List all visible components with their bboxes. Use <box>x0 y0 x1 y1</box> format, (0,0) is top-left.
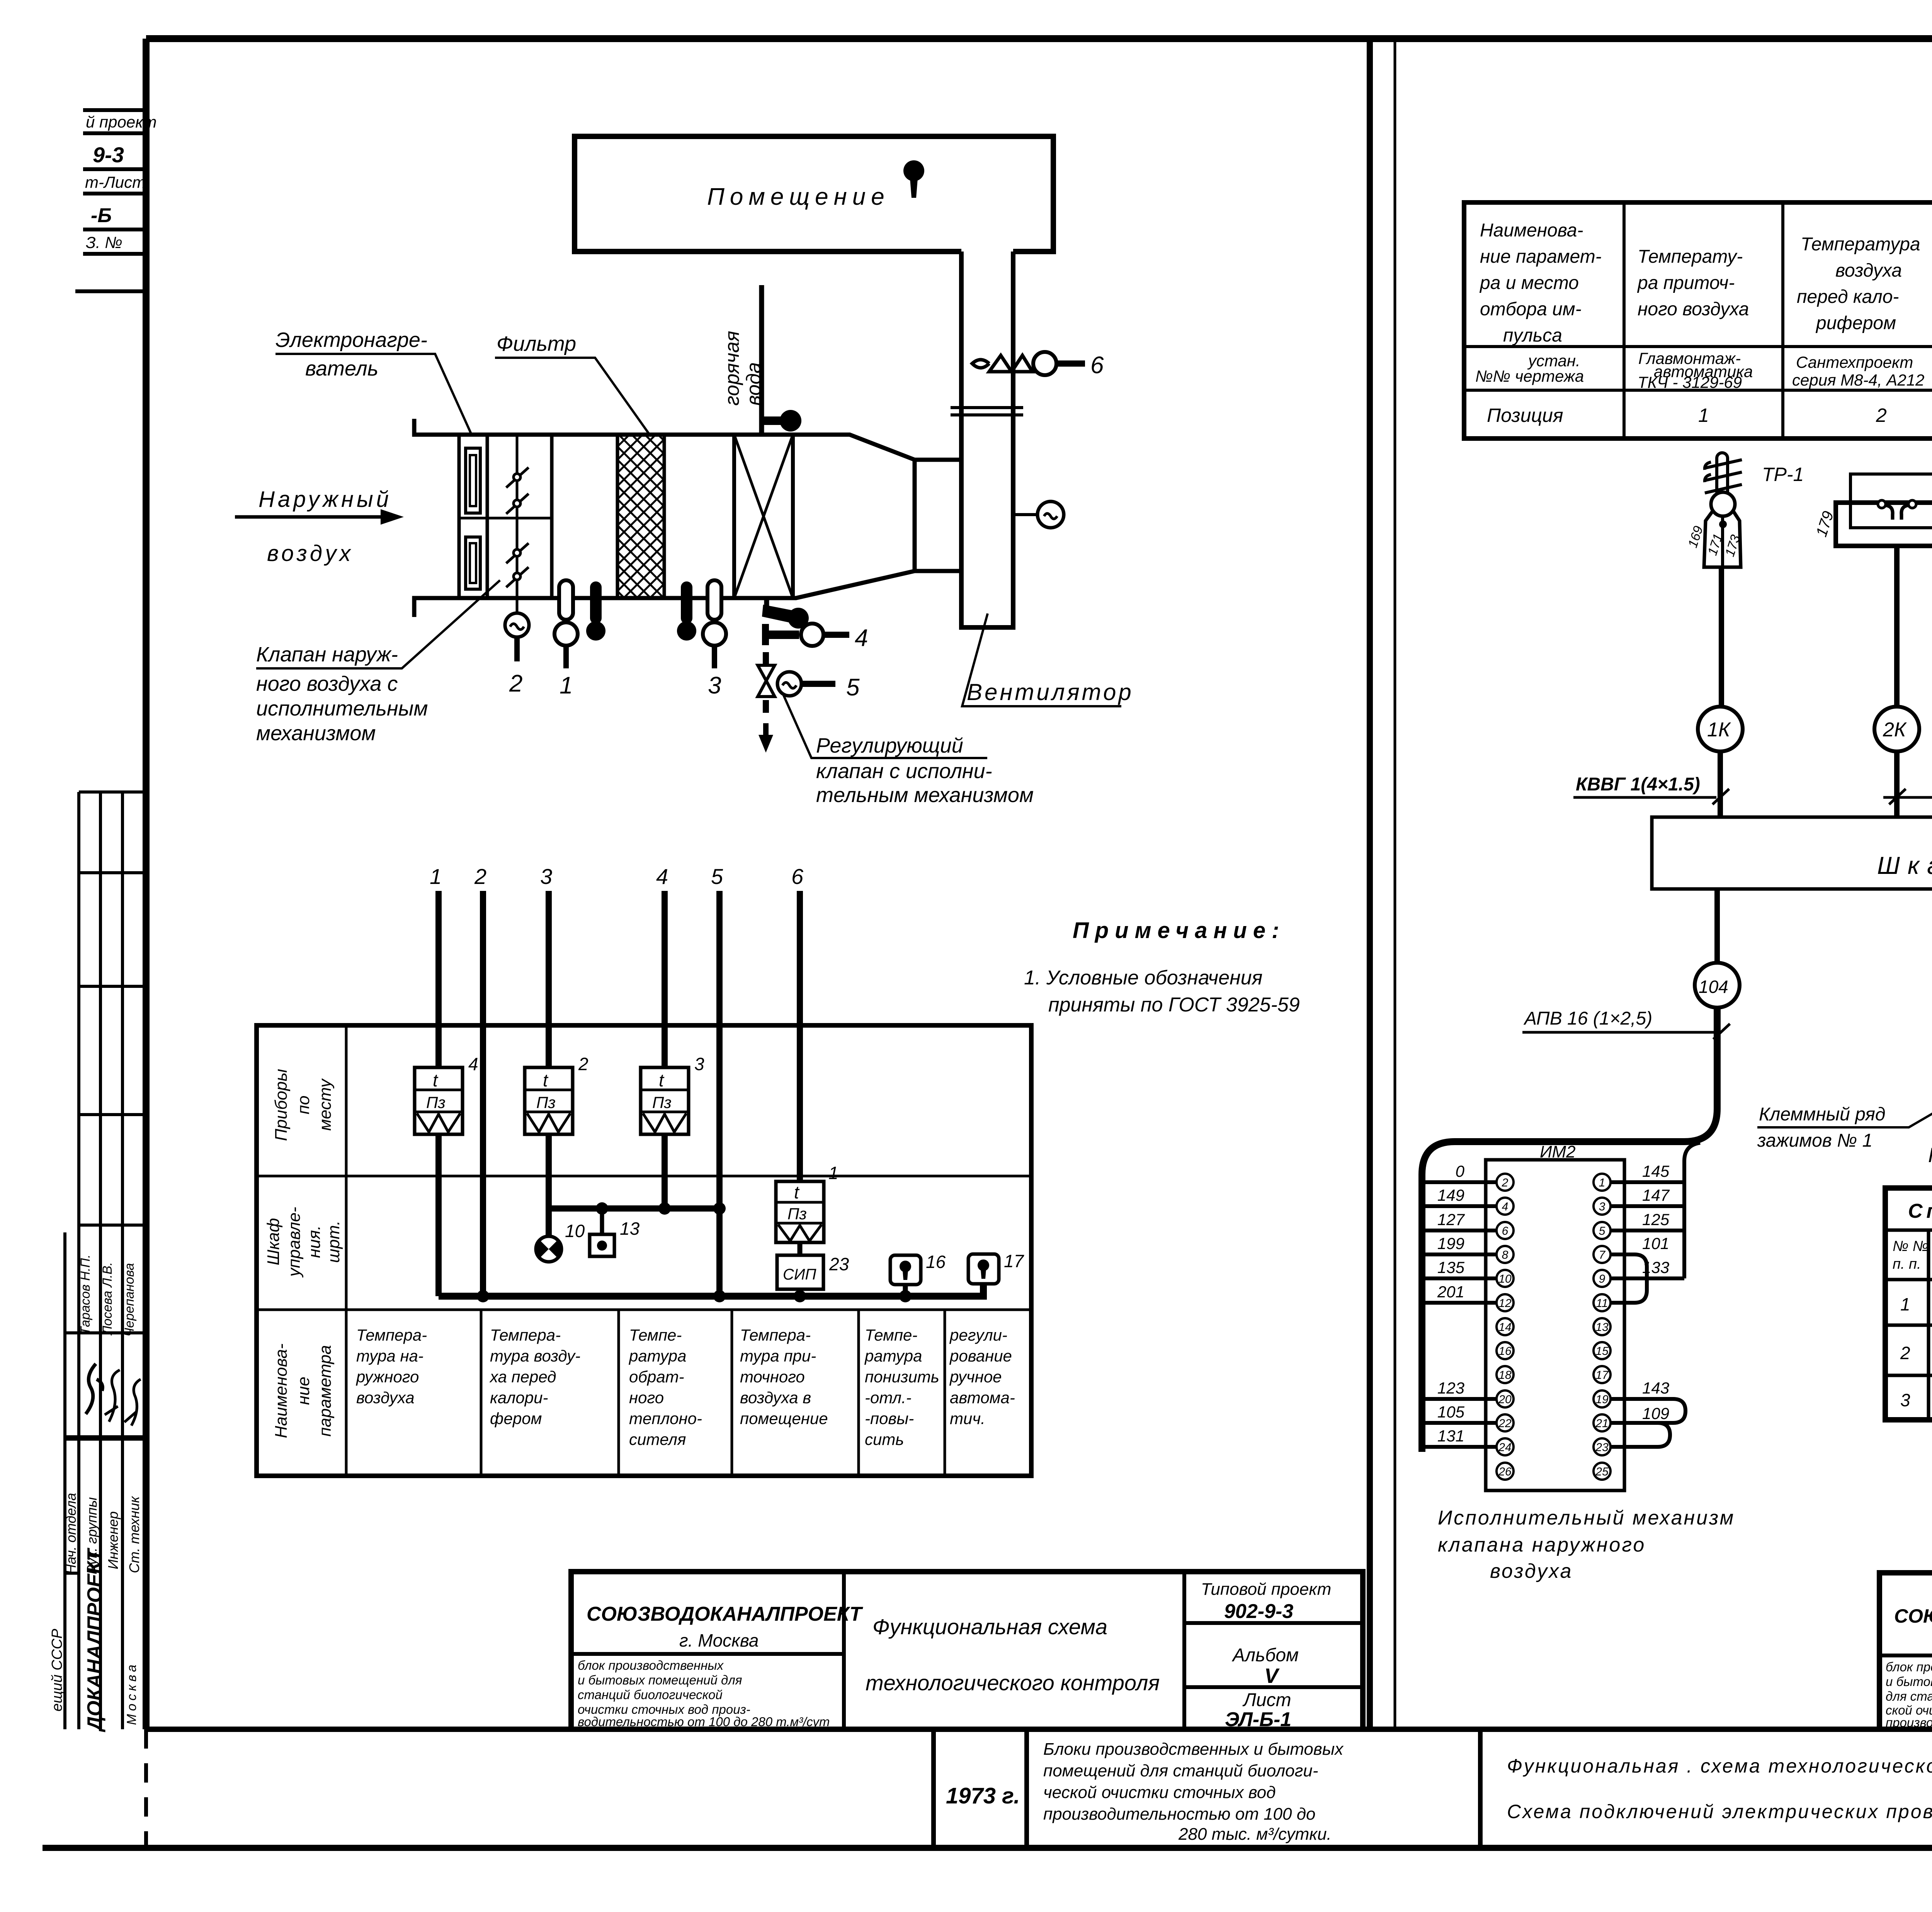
impulse line 6 <box>791 864 804 1184</box>
svg-text:14: 14 <box>1498 1321 1511 1334</box>
instrument block on line 1 (pos 4) <box>415 1054 478 1134</box>
svg-text:СОЮЗВОДОКАНАЛПРОЕКТ: СОЮЗВОДОКАНАЛПРОЕКТ <box>1894 1605 1932 1627</box>
svg-text:8: 8 <box>1502 1249 1509 1261</box>
svg-text:№ №: № № <box>1893 1238 1929 1254</box>
svg-text:по: по <box>294 1096 313 1115</box>
svg-text:клапана наружного: клапана наружного <box>1438 1534 1646 1556</box>
instrument block on line 6 (pos 1) <box>776 1163 838 1242</box>
svg-text:-повы-: -повы- <box>865 1409 914 1428</box>
impulse line 3 <box>540 864 552 1236</box>
svg-text:производит. от.100 до 280 т.м³: производит. от.100 до 280 т.м³/сут <box>1886 1715 1932 1730</box>
thermometer black B <box>677 581 696 641</box>
svg-text:5: 5 <box>846 674 860 701</box>
svg-text:6: 6 <box>791 864 804 889</box>
svg-text:Темпе-: Темпе- <box>629 1326 682 1344</box>
svg-text:-отл.-: -отл.- <box>865 1389 912 1407</box>
svg-text:Спецификация основных мон: Спецификация основных монтажных материал… <box>1908 1200 1932 1222</box>
room temperature sensor (black) <box>903 160 924 198</box>
svg-text:ние парамет-: ние парамет- <box>1480 246 1602 267</box>
svg-text:ха перед: ха перед <box>489 1368 556 1386</box>
svg-text:Функциональная . схема техно: Функциональная . схема технологического … <box>1507 1755 1932 1777</box>
svg-text:123: 123 <box>1437 1379 1464 1397</box>
caption: Исполнительный механизм клапана наружного воздуха <box>1438 1507 1735 1582</box>
svg-text:t: t <box>659 1070 665 1090</box>
label APV16 <box>1522 1008 1730 1039</box>
regulating valve element 5 <box>758 652 860 753</box>
svg-text:3: 3 <box>1599 1200 1605 1213</box>
row header Наименование параметра <box>272 1343 335 1438</box>
svg-text:Исполнительный механизм: Исполнительный механизм <box>1438 1507 1735 1529</box>
svg-text:4: 4 <box>1502 1200 1509 1213</box>
wire to 104 <box>1695 889 1740 1008</box>
svg-text:Ст. техник: Ст. техник <box>126 1496 142 1573</box>
svg-text:17: 17 <box>1595 1369 1609 1382</box>
svg-text:фером: фером <box>490 1409 542 1428</box>
label Регулирующий клапан <box>784 695 1034 807</box>
svg-text:t: t <box>433 1070 439 1090</box>
svg-text:109: 109 <box>1642 1404 1669 1423</box>
svg-text:управле-: управле- <box>285 1207 304 1278</box>
svg-text:Темпера-: Темпера- <box>490 1326 561 1344</box>
svg-text:точного: точного <box>740 1368 805 1386</box>
svg-text:ружного: ружного <box>355 1368 419 1386</box>
svg-text:Типовой проект: Типовой проект <box>1201 1580 1331 1599</box>
svg-text:0: 0 <box>1456 1162 1465 1180</box>
label Вентилятор <box>962 614 1134 706</box>
svg-text:Регулирующий: Регулирующий <box>816 734 963 757</box>
cable labels <box>1573 773 1932 804</box>
element 4 pressure tap <box>765 624 868 651</box>
section divider <box>550 435 554 598</box>
right title block <box>1879 1573 1932 1730</box>
svg-text:СИП: СИП <box>783 1266 817 1283</box>
svg-text:ного: ного <box>629 1389 664 1407</box>
svg-text:месту: месту <box>316 1078 335 1131</box>
thermometer 1 (white) <box>554 580 578 699</box>
SIP block 23 <box>777 1242 849 1296</box>
svg-text:сителя: сителя <box>629 1430 686 1448</box>
svg-text:18: 18 <box>1498 1369 1512 1382</box>
label Электронагреватель <box>276 328 471 433</box>
cabinet Шкаф ШРТ <box>1652 817 1932 889</box>
svg-text:16: 16 <box>1498 1345 1512 1358</box>
svg-text:ещий СССР: ещий СССР <box>49 1628 65 1711</box>
svg-text:9-3: 9-3 <box>93 143 124 167</box>
svg-text:горячая: горячая <box>721 331 743 406</box>
svg-text:отбора им-: отбора им- <box>1480 299 1582 320</box>
left title block <box>571 1572 1363 1731</box>
svg-text:9: 9 <box>1599 1273 1605 1285</box>
svg-text:1. Условные обозначения: 1. Условные обозначения <box>1024 967 1262 989</box>
outside air damper with blades <box>505 435 529 697</box>
svg-text:6: 6 <box>1090 352 1104 379</box>
svg-text:ратура: ратура <box>628 1347 687 1365</box>
svg-text:23: 23 <box>829 1254 849 1274</box>
svg-text:149: 149 <box>1437 1186 1464 1204</box>
damper element 6 on duct <box>972 352 1104 379</box>
svg-text:ИМ2: ИМ2 <box>1540 1142 1576 1161</box>
svg-text:Лосева Л.В.: Лосева Л.В. <box>100 1262 115 1336</box>
svg-text:рифером: рифером <box>1815 313 1896 333</box>
element 16 <box>890 1252 946 1296</box>
svg-text:т-Лист: т-Лист <box>85 173 146 191</box>
svg-text:производительностью от 100: производительностью от 100 до <box>1043 1805 1316 1824</box>
svg-text:16: 16 <box>926 1252 946 1272</box>
svg-text:24: 24 <box>1498 1441 1511 1454</box>
svg-text:блок производственных: блок производственных <box>1886 1660 1932 1674</box>
svg-text:З. №: З. № <box>86 233 122 252</box>
svg-text:Шкаф: Шкаф <box>1877 851 1932 879</box>
svg-text:параметра: параметра <box>316 1345 335 1437</box>
svg-text:калори-: калори- <box>490 1389 548 1407</box>
svg-text:4: 4 <box>468 1054 478 1074</box>
svg-text:Клеммный ряд: Клеммный ряд <box>1759 1104 1885 1125</box>
element 13 (square with dot) <box>590 1208 640 1256</box>
svg-text:145: 145 <box>1642 1162 1670 1180</box>
svg-text:ного воздуха: ного воздуха <box>1638 299 1749 320</box>
svg-text:воздуха: воздуха <box>356 1389 415 1407</box>
svg-text:обрат-: обрат- <box>629 1368 684 1386</box>
svg-text:10: 10 <box>565 1221 585 1241</box>
svg-text:105: 105 <box>1437 1403 1465 1421</box>
svg-text:Тарасов Н.П.: Тарасов Н.П. <box>78 1254 93 1335</box>
filter (cross-hatched) <box>617 435 664 598</box>
svg-text:клапан с исполни-: клапан с исполни- <box>816 760 992 783</box>
svg-text:2: 2 <box>1876 404 1887 426</box>
left stamp (rotated title block) <box>49 792 146 1732</box>
label Фильтр <box>495 332 649 433</box>
svg-text:воздуха в: воздуха в <box>740 1389 811 1407</box>
svg-text:143: 143 <box>1642 1379 1669 1397</box>
svg-text:Альбом: Альбом <box>1231 1645 1299 1666</box>
parameters table <box>1464 202 1932 438</box>
bottom strip <box>934 1729 1932 1895</box>
svg-text:станций биологической: станций биологической <box>578 1688 723 1702</box>
row header Приборы по месту <box>272 1069 335 1141</box>
svg-text:Блоки производственных и бы: Блоки производственных и бытовых <box>1043 1740 1344 1759</box>
svg-text:Наружный: Наружный <box>259 487 392 512</box>
svg-text:Лист: Лист <box>1242 1690 1291 1710</box>
svg-text:серия М8-4, А212: серия М8-4, А212 <box>1792 371 1924 389</box>
svg-text:13: 13 <box>1595 1321 1609 1334</box>
svg-text:ческой очистки сточных вод: ческой очистки сточных вод <box>1043 1783 1276 1802</box>
svg-text:26: 26 <box>1498 1465 1512 1478</box>
svg-text:101: 101 <box>1642 1234 1669 1253</box>
svg-text:11: 11 <box>1596 1297 1608 1310</box>
svg-text:Клапан наружного воздуха с: Клапан наружного воздуха с <box>1928 1144 1932 1167</box>
svg-text:помещение: помещение <box>740 1409 828 1428</box>
svg-text:135: 135 <box>1437 1258 1465 1276</box>
svg-text:понизить: понизить <box>865 1368 939 1386</box>
svg-text:Позиция: Позиция <box>1487 404 1563 426</box>
svg-text:2К: 2К <box>1883 719 1907 741</box>
svg-text:1: 1 <box>430 864 442 889</box>
row header Шкаф управления ШРТ <box>264 1207 343 1278</box>
svg-text:Темпера-: Темпера- <box>740 1326 811 1344</box>
svg-text:-Б: -Б <box>91 204 112 227</box>
svg-text:КВВГ 1(4×1.5): КВВГ 1(4×1.5) <box>1576 774 1700 795</box>
svg-text:Помещение: Помещение <box>707 184 890 210</box>
svg-text:и бытовых помещений для: и бытовых помещений для <box>578 1673 742 1687</box>
shkaf row connector <box>549 1202 726 1215</box>
svg-text:тич.: тич. <box>950 1409 985 1428</box>
svg-text:вода: вода <box>743 362 765 406</box>
svg-text:280 тыс. м³/сутки.: 280 тыс. м³/сутки. <box>1178 1825 1332 1844</box>
svg-text:ЭЛ-Б-1: ЭЛ-Б-1 <box>1225 1708 1291 1731</box>
svg-text:127: 127 <box>1437 1210 1465 1229</box>
svg-text:15: 15 <box>1595 1345 1609 1358</box>
svg-text:3: 3 <box>540 864 552 889</box>
svg-text:регули-: регули- <box>949 1326 1007 1344</box>
svg-text:1: 1 <box>560 672 573 699</box>
svg-text:23: 23 <box>1595 1441 1609 1454</box>
svg-text:t: t <box>794 1182 800 1202</box>
svg-text:20: 20 <box>1498 1393 1512 1406</box>
svg-text:Приборы: Приборы <box>272 1069 291 1141</box>
sensor TP-1 <box>1685 453 1804 707</box>
top-left margin table <box>75 110 157 291</box>
note Примечание <box>1024 918 1300 1016</box>
svg-text:ТР-1: ТР-1 <box>1762 464 1804 485</box>
svg-text:помещений для станций биоло: помещений для станций биологи- <box>1043 1761 1318 1780</box>
svg-text:№№ чертежа: №№ чертежа <box>1475 367 1584 385</box>
valve caption <box>1928 1144 1932 1187</box>
svg-text:водительностью от 100 до 280 т: водительностью от 100 до 280 т.м³/сут <box>578 1715 830 1729</box>
IM2 connector pins <box>1497 1174 1611 1480</box>
svg-text:7: 7 <box>1599 1249 1606 1261</box>
svg-text:рование: рование <box>949 1347 1012 1365</box>
supply duct to fan <box>951 252 1023 627</box>
impulse line 1 <box>430 864 442 1296</box>
svg-text:6: 6 <box>1502 1225 1509 1237</box>
svg-text:201: 201 <box>1437 1283 1464 1301</box>
svg-text:перед кало-: перед кало- <box>1797 287 1899 307</box>
impulse line 5 <box>711 864 723 1296</box>
svg-text:Схема подключений электриче: Схема подключений электрических проводок… <box>1507 1801 1932 1822</box>
svg-text:3: 3 <box>1900 1390 1910 1410</box>
svg-text:Клапан наруж-: Клапан наруж- <box>256 643 398 666</box>
svg-text:ния.: ния. <box>305 1225 324 1258</box>
IM2 connector block <box>1486 1142 1624 1491</box>
svg-text:13: 13 <box>620 1219 640 1239</box>
svg-text:Электронагре-: Электронагре- <box>276 328 427 352</box>
svg-text:ра приточ-: ра приточ- <box>1637 273 1735 293</box>
svg-text:Нач. отдела: Нач. отдела <box>63 1493 79 1574</box>
element 10 (circle with X) <box>536 1208 585 1262</box>
svg-text:тура при-: тура при- <box>740 1347 816 1365</box>
IM2 left pin wires with wire numbers <box>1422 1162 1496 1447</box>
svg-text:902-9-3: 902-9-3 <box>1224 1600 1293 1623</box>
svg-text:2: 2 <box>474 864 486 889</box>
svg-text:Температура: Температура <box>1801 234 1920 255</box>
main wire loom to IM2 <box>1422 1008 1717 1452</box>
svg-text:21: 21 <box>1595 1417 1608 1430</box>
svg-text:теплоно-: теплоно- <box>629 1409 702 1428</box>
svg-text:тура возду-: тура возду- <box>490 1347 580 1365</box>
svg-text:Наименова-: Наименова- <box>272 1343 291 1438</box>
svg-text:ДОКАНАЛПРОЕКТ: ДОКАНАЛПРОЕКТ <box>83 1547 106 1732</box>
svg-text:Примечание:: Примечание: <box>1073 918 1285 943</box>
svg-text:приняты по ГОСТ 3925-59: приняты по ГОСТ 3925-59 <box>1048 994 1300 1016</box>
svg-text:ного воздуха с: ного воздуха с <box>256 672 398 695</box>
svg-text:Фильтр: Фильтр <box>497 332 576 355</box>
svg-text:зажимов № 1: зажимов № 1 <box>1757 1130 1872 1151</box>
svg-text:и бытовых помещений: и бытовых помещений <box>1886 1674 1932 1689</box>
svg-text:V: V <box>1264 1664 1280 1688</box>
AHU casing <box>414 419 961 617</box>
svg-text:2: 2 <box>1502 1176 1509 1189</box>
sensor TP-2 <box>1813 451 1932 707</box>
svg-text:4: 4 <box>656 864 668 889</box>
svg-text:ра и место: ра и место <box>1479 273 1579 293</box>
instrument block on line 3 (pos 2) <box>525 1054 588 1134</box>
svg-text:ручное: ручное <box>949 1368 1002 1386</box>
thermometer 3 (white) <box>703 580 726 699</box>
label Клапан наружного воздуха <box>256 580 500 745</box>
svg-text:Москва: Москва <box>124 1662 139 1725</box>
instrument block on line 4 (pos 3) <box>641 1054 704 1134</box>
svg-text:Вентилятор: Вентилятор <box>967 679 1134 705</box>
svg-text:1: 1 <box>1900 1294 1910 1314</box>
parameter cells text <box>355 1326 1015 1448</box>
svg-text:сить: сить <box>865 1430 904 1448</box>
return water black sensor under heat exchanger <box>762 598 809 629</box>
svg-text:5: 5 <box>711 864 723 889</box>
IM2 right pin wires with wire numbers <box>1611 1143 1700 1447</box>
svg-text:СОЮЗВОДОКАНАЛПРОЕКТ: СОЮЗВОДОКАНАЛПРОЕКТ <box>587 1603 863 1625</box>
svg-text:блок производственных: блок производственных <box>578 1658 724 1672</box>
svg-text:4: 4 <box>855 625 868 651</box>
svg-text:2: 2 <box>578 1054 588 1074</box>
hot water pipe <box>721 285 801 435</box>
wires from circles to cabinet <box>1720 751 1932 817</box>
impulse line 2 <box>474 864 486 1296</box>
svg-text:Пз: Пз <box>787 1205 807 1223</box>
svg-text:Пз: Пз <box>536 1093 556 1112</box>
svg-text:131: 131 <box>1437 1427 1464 1445</box>
fan motor circle <box>1013 501 1064 528</box>
svg-text:г. Москва: г. Москва <box>679 1630 759 1650</box>
svg-text:ратура: ратура <box>864 1347 922 1365</box>
svg-text:25: 25 <box>1595 1465 1609 1478</box>
thermometer black A <box>586 581 605 641</box>
svg-text:Пз: Пз <box>426 1093 446 1112</box>
svg-text:10: 10 <box>1498 1273 1512 1285</box>
svg-text:технологического контроля: технологического контроля <box>866 1671 1160 1695</box>
svg-text:2: 2 <box>509 670 522 697</box>
main bus in shkaf row <box>439 1284 983 1302</box>
svg-text:199: 199 <box>1437 1234 1464 1253</box>
svg-text:17: 17 <box>1004 1251 1024 1271</box>
svg-text:шрт.: шрт. <box>324 1220 343 1263</box>
svg-text:Пз: Пз <box>652 1093 672 1112</box>
svg-text:Наименова-: Наименова- <box>1480 220 1583 241</box>
element 17 <box>968 1251 1024 1284</box>
svg-text:п. п.: п. п. <box>1893 1256 1921 1272</box>
impulse line 4 <box>656 864 668 1208</box>
svg-text:Температу-: Температу- <box>1638 246 1743 267</box>
svg-text:19: 19 <box>1595 1393 1609 1406</box>
svg-text:1: 1 <box>828 1163 838 1183</box>
svg-text:воздуха: воздуха <box>1835 260 1902 281</box>
svg-text:ТКЧ - 3129-69: ТКЧ - 3129-69 <box>1638 373 1742 391</box>
svg-text:147: 147 <box>1642 1186 1670 1204</box>
heat exchanger (X box) <box>734 435 793 598</box>
middle divider between sheets <box>1370 39 1395 1729</box>
specification table <box>1885 1188 1932 1420</box>
svg-text:5: 5 <box>1599 1225 1605 1237</box>
svg-text:исполнительным: исполнительным <box>256 697 428 720</box>
svg-text:Черепанова: Черепанова <box>122 1263 137 1337</box>
electric heater (two elements) <box>459 435 552 598</box>
room box Помещение <box>575 136 1053 252</box>
terminal leaders <box>1757 1069 1932 1151</box>
svg-text:ватель: ватель <box>305 357 378 380</box>
outside air arrow <box>235 487 404 566</box>
diagram table <box>257 1025 1031 1476</box>
svg-text:автома-: автома- <box>950 1389 1015 1407</box>
svg-text:1973 г.: 1973 г. <box>946 1783 1020 1808</box>
svg-text:для станций биологиче-: для станций биологиче- <box>1886 1689 1932 1703</box>
svg-text:1К: 1К <box>1707 719 1731 741</box>
svg-text:3: 3 <box>708 672 721 699</box>
svg-text:тура на-: тура на- <box>356 1347 423 1365</box>
svg-text:воздух: воздух <box>267 541 354 566</box>
svg-text:Шкаф: Шкаф <box>264 1218 283 1266</box>
svg-text:Темпера-: Темпера- <box>356 1326 427 1344</box>
svg-text:Инженер: Инженер <box>105 1511 121 1569</box>
svg-text:104: 104 <box>1699 977 1728 997</box>
svg-text:воздуха: воздуха <box>1490 1560 1573 1582</box>
svg-text:2: 2 <box>1900 1343 1910 1363</box>
svg-text:133: 133 <box>1642 1258 1669 1276</box>
svg-text:ние: ние <box>294 1377 313 1405</box>
svg-text:й проект: й проект <box>86 113 157 131</box>
svg-text:22: 22 <box>1498 1417 1512 1430</box>
relay circles 1K-5K <box>1698 707 1932 751</box>
svg-text:t: t <box>543 1070 549 1090</box>
svg-text:АПВ 16 (1×2,5): АПВ 16 (1×2,5) <box>1523 1008 1652 1029</box>
svg-text:Сантехпроект: Сантехпроект <box>1796 353 1913 371</box>
svg-text:125: 125 <box>1642 1210 1670 1229</box>
svg-text:механизмом: механизмом <box>256 722 376 745</box>
svg-text:Темпе-: Темпе- <box>865 1326 917 1344</box>
svg-text:12: 12 <box>1498 1297 1512 1310</box>
svg-text:тельным механизмом: тельным механизмом <box>816 783 1034 807</box>
svg-text:пульса: пульса <box>1503 325 1562 346</box>
svg-text:1: 1 <box>1599 1176 1605 1189</box>
svg-text:1: 1 <box>1698 404 1709 426</box>
svg-text:3: 3 <box>694 1054 704 1074</box>
svg-text:Функциональная схема: Функциональная схема <box>872 1615 1107 1639</box>
